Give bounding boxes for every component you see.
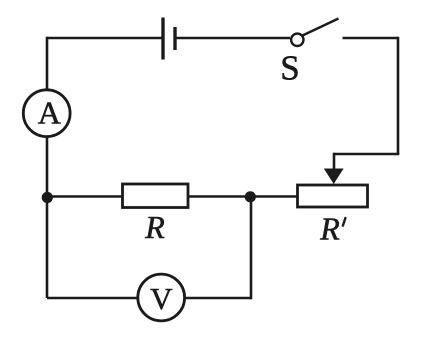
svg-text:V: V bbox=[150, 281, 173, 316]
svg-text:A: A bbox=[38, 95, 61, 131]
svg-text:S: S bbox=[280, 49, 299, 88]
svg-text:R: R bbox=[144, 209, 165, 245]
svg-text:R: R bbox=[319, 211, 340, 247]
